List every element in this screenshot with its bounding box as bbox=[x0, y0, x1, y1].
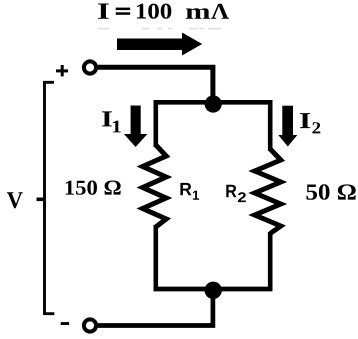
node A (top junction) bbox=[205, 95, 222, 112]
faint underline artifacts bbox=[98, 28, 221, 30]
label V bbox=[7, 192, 23, 208]
terminal (top, open circle) bbox=[84, 61, 96, 73]
wire node to bottom terminal bbox=[98, 292, 213, 326]
current direction arrow (top) bbox=[117, 33, 202, 56]
label R1 bbox=[180, 183, 199, 200]
wire left branch lower bbox=[154, 225, 159, 291]
label R2 bbox=[226, 185, 246, 202]
label I = 100 mA (source current) bbox=[98, 4, 229, 19]
arrow I2 (downward) bbox=[278, 106, 297, 147]
wire bottom rail bbox=[154, 287, 273, 292]
node B (bottom junction) bbox=[205, 282, 222, 299]
label 50 ohm bbox=[306, 184, 355, 200]
wire top terminal to node bbox=[98, 67, 213, 100]
resistor R2 (zigzag) bbox=[255, 149, 281, 234]
minus sign (-) bbox=[61, 322, 69, 325]
resistor R1 (zigzag) bbox=[143, 145, 167, 227]
bracket tick bbox=[37, 198, 45, 202]
wire right branch lower bbox=[268, 232, 273, 291]
equals sign of label I = 100 mA bbox=[116, 8, 131, 15]
label 150 ohm bbox=[66, 181, 121, 195]
plus sign (+) bbox=[56, 65, 68, 76]
voltage bracket bbox=[45, 82, 55, 313]
label I1 bbox=[102, 111, 121, 132]
terminal (bottom, open circle) bbox=[84, 319, 96, 331]
label I2 bbox=[300, 113, 320, 133]
wire right branch upper bbox=[268, 100, 273, 151]
wire left branch upper bbox=[154, 100, 159, 147]
wire top rail bbox=[154, 100, 273, 105]
arrow I1 (downward) bbox=[124, 106, 147, 148]
